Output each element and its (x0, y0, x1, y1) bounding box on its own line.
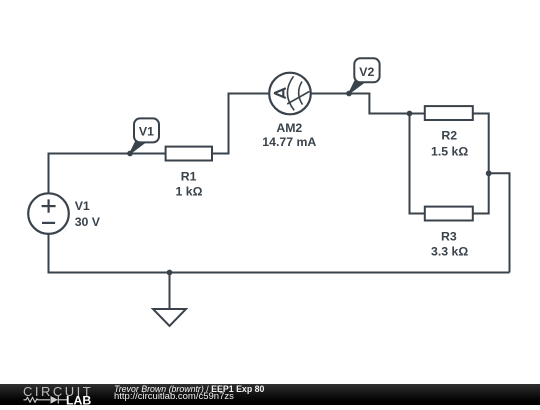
ammeter AM2 circle (269, 73, 311, 115)
node junction dot left rail R2/R3 (407, 111, 413, 117)
resistor R1 (166, 147, 212, 161)
wire top-left horizontal (V1 top to R1) (49, 154, 166, 194)
voltage source V1 minus sign (42, 222, 55, 224)
node junction dot ground tap (167, 270, 173, 276)
svg-text:R3: R3 (441, 230, 457, 244)
svg-text:R1: R1 (181, 170, 197, 184)
ground symbol triangle (153, 309, 186, 326)
ground stem wire (169, 273, 171, 310)
svg-text:AM2: AM2 (276, 121, 302, 135)
wire R2 right stub and right rail down to R3 (473, 114, 489, 214)
svg-text:V2: V2 (359, 65, 374, 79)
wire tap from right rail junction to outer right rail (489, 173, 510, 272)
node junction dot right rail tap (486, 170, 492, 176)
footer bar (0, 384, 540, 405)
voltage source V1 circle (28, 193, 69, 234)
svg-text:LAB: LAB (66, 394, 91, 405)
resistor R2 (425, 106, 473, 120)
voltage source V1 plus sign (42, 199, 56, 212)
ammeter AM2 gauge arc short (299, 82, 303, 105)
svg-text:V1: V1 (139, 125, 154, 139)
flag V1 pointer wedge (129, 139, 146, 154)
node dot at V2 flag tap (346, 91, 352, 97)
flag V1 box (134, 118, 159, 142)
ammeter AM2 letter A rotated sideways (274, 88, 286, 98)
CircuitLab logo (22, 385, 94, 410)
svg-text:1.5 kΩ: 1.5 kΩ (431, 145, 468, 159)
resistor R3 (425, 207, 473, 221)
svg-text:R2: R2 (441, 128, 457, 142)
svg-text:14.77 mA: 14.77 mA (262, 135, 316, 149)
svg-text:V1: V1 (75, 199, 90, 213)
svg-text:30 V: 30 V (75, 215, 101, 229)
wire left rail of parallel pair down to R3 (410, 114, 426, 214)
wire R1 right to ammeter (212, 94, 269, 154)
footer attribution text (113, 383, 115, 385)
svg-text:3.3 kΩ: 3.3 kΩ (431, 244, 468, 258)
wire ammeter right to R2 with jog (311, 94, 425, 114)
flag V2 box (354, 58, 379, 82)
wire bottom rail (49, 234, 510, 273)
ammeter AM2 gauge arc long (287, 76, 294, 110)
ammeter AM2 needle (287, 92, 309, 105)
svg-text:1 kΩ: 1 kΩ (176, 185, 203, 199)
flag V2 pointer wedge (348, 79, 365, 94)
node dot at V1 flag tap (127, 151, 133, 157)
